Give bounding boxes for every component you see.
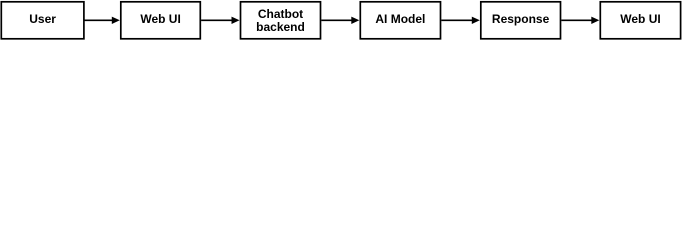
svg-text:Response: Response — [492, 12, 550, 26]
svg-text:User: User — [29, 12, 56, 26]
node AI Model — [360, 2, 440, 39]
node User — [1, 2, 84, 39]
background — [0, 0, 682, 42]
svg-text:Web UI: Web UI — [140, 12, 180, 26]
node Chatbot backend — [241, 2, 321, 39]
node Response — [481, 2, 561, 39]
wire arrow User to Web UI — [84, 17, 119, 24]
svg-text:backend: backend — [256, 20, 305, 34]
node Web UI (first) — [121, 2, 201, 39]
svg-text:Web UI: Web UI — [620, 12, 660, 26]
wire arrow Web UI to Chatbot backend — [201, 17, 239, 24]
wire arrow Response to Web UI — [561, 17, 599, 24]
svg-text:Chatbot: Chatbot — [258, 7, 303, 21]
wire arrow Chatbot backend to AI Model — [321, 17, 359, 24]
wire arrow AI Model to Response — [441, 17, 480, 24]
svg-text:AI Model: AI Model — [375, 12, 425, 26]
node Web UI (second) — [600, 2, 680, 39]
